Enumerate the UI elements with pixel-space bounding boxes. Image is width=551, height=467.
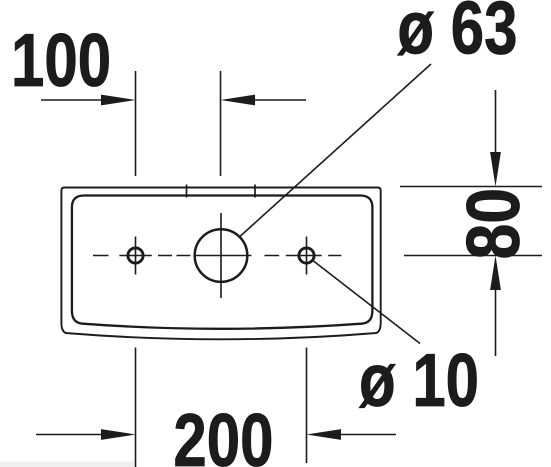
- extension line 200 left (x=135.5): [135, 348, 137, 467]
- extension line 100 left (x=135.5): [135, 71, 137, 176]
- svg-text:ø 63: ø 63: [397, 0, 517, 70]
- arrowhead 200 right: [307, 429, 342, 440]
- dimension line 80 bottom shaft: [495, 287, 497, 356]
- svg-text:80: 80: [451, 188, 535, 260]
- extension line 100 right (x=220.5): [220, 71, 222, 176]
- centerline vertical big circle: [220, 213, 222, 298]
- extension line 200 right (x=306.5): [306, 348, 308, 464]
- lid seam tick right: [254, 185, 256, 198]
- dimension line 80 top shaft: [495, 90, 497, 155]
- horizontal dashed centerline through holes: [93, 255, 341, 257]
- leader line diameter 10: [314, 261, 421, 344]
- centerline vertical left hole: [135, 237, 137, 275]
- centerline vertical right hole: [306, 237, 308, 275]
- lid seam tick left: [186, 185, 188, 198]
- arrowhead 100 right: [221, 95, 256, 106]
- arrowhead 80 up: [490, 256, 501, 291]
- dimension line 100 left shaft: [41, 99, 103, 101]
- arrowhead 200 left: [101, 429, 136, 440]
- grey scan band bottom-left: [0, 462, 134, 467]
- extension line 80 bottom (y=255.5): [404, 255, 542, 257]
- fixing hole right C10: [299, 248, 314, 263]
- fixing hole left C10: [128, 248, 143, 263]
- arrowhead 80 down: [490, 152, 501, 187]
- cistern outer outline: [61, 188, 380, 340]
- dimension line 200 right shaft: [338, 434, 396, 436]
- dimension line 200 left shaft: [36, 434, 104, 436]
- svg-text:200: 200: [173, 400, 273, 467]
- dimension line 100 right shaft: [253, 99, 306, 101]
- cistern inner outline: [72, 196, 373, 329]
- flush hole circle C63: [195, 229, 248, 282]
- leader line diameter 63: [240, 64, 431, 236]
- arrowhead 100 left: [101, 95, 136, 106]
- svg-text:100: 100: [11, 20, 111, 103]
- svg-text:ø 10: ø 10: [359, 340, 479, 423]
- extension line 80 top (y=186.5): [400, 186, 542, 188]
